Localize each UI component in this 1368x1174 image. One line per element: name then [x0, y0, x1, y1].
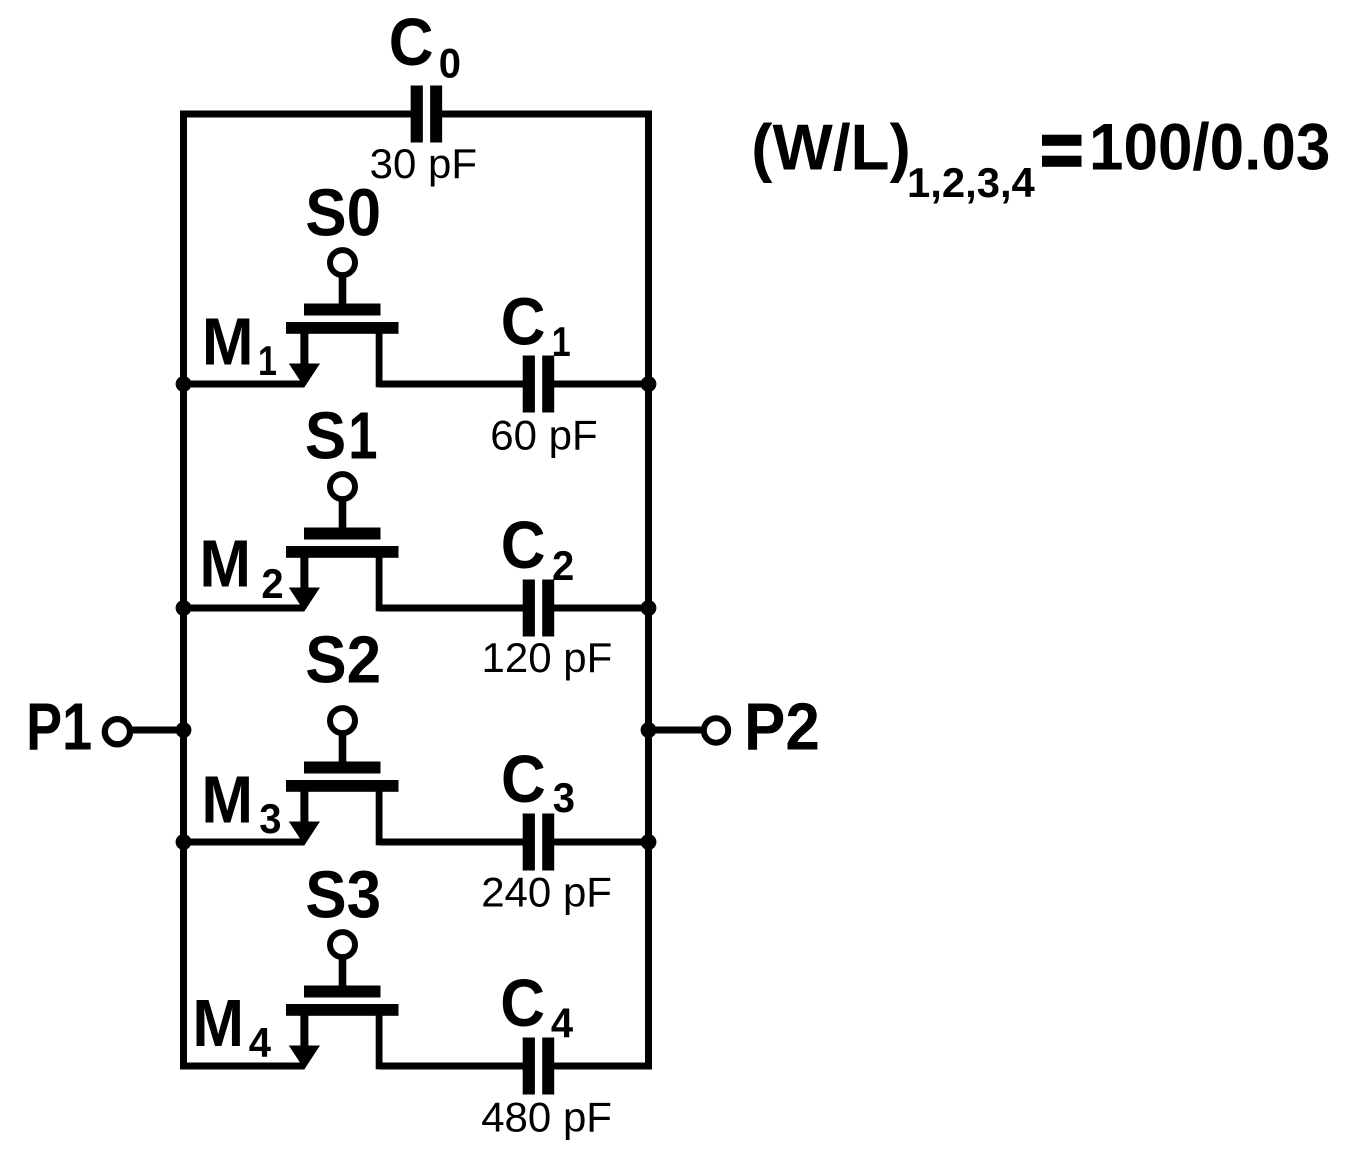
svg-text:M: M — [201, 762, 253, 837]
svg-text:240 pF: 240 pF — [481, 868, 612, 915]
equals sign — [1042, 135, 1082, 146]
wire row1 middle — [379, 381, 524, 388]
node row2 right junction — [641, 600, 657, 616]
svg-text:P2: P2 — [744, 689, 820, 764]
capacitor C3 — [523, 814, 555, 871]
svg-text:M: M — [199, 526, 251, 601]
svg-text:30 pF: 30 pF — [370, 140, 477, 187]
capacitor C2 — [523, 580, 555, 637]
transistor M1 — [286, 250, 399, 387]
svg-text:P1: P1 — [26, 689, 92, 764]
svg-text:100/0.03: 100/0.03 — [1089, 110, 1330, 184]
svg-text:2: 2 — [261, 560, 283, 607]
svg-text:M: M — [202, 304, 254, 379]
wire row4 left — [180, 1063, 305, 1070]
transistor M2 — [286, 474, 399, 611]
wire row3 left — [184, 839, 305, 846]
svg-text:3: 3 — [259, 795, 281, 842]
wire top right segment — [441, 111, 653, 118]
wire row1 left — [184, 381, 305, 388]
capacitor C1 — [523, 356, 555, 413]
svg-text:M: M — [192, 986, 244, 1061]
svg-text:C: C — [501, 742, 546, 817]
svg-text:1,2,3,4: 1,2,3,4 — [907, 159, 1035, 206]
terminal P1 — [105, 719, 130, 744]
node row1 right junction — [641, 376, 657, 392]
node row3 left junction — [176, 834, 192, 850]
terminal P2 — [704, 718, 728, 742]
svg-text:C: C — [501, 508, 546, 583]
transistor M3 — [286, 708, 399, 845]
svg-text:(W/L): (W/L) — [751, 111, 911, 184]
svg-text:1: 1 — [348, 397, 377, 473]
wire right rail — [645, 111, 652, 1070]
svg-text:S2: S2 — [305, 622, 381, 697]
svg-text:60 pF: 60 pF — [490, 411, 597, 458]
wire row4 middle — [379, 1063, 524, 1070]
svg-text:4: 4 — [249, 1019, 272, 1066]
node P2 junction — [641, 722, 657, 738]
svg-text:C: C — [500, 966, 545, 1041]
svg-text:2: 2 — [552, 542, 574, 589]
node row2 left junction — [176, 600, 192, 616]
wire row4 right — [554, 1063, 653, 1070]
wire row2 left — [184, 605, 305, 612]
svg-text:3: 3 — [553, 774, 575, 821]
svg-text:4: 4 — [551, 1000, 574, 1047]
wire left rail — [180, 111, 187, 1070]
svg-text:120 pF: 120 pF — [482, 634, 613, 681]
svg-text:S3: S3 — [305, 857, 381, 932]
svg-text:0: 0 — [439, 40, 461, 87]
capacitor C4 — [523, 1038, 555, 1095]
wire P1 stub — [131, 727, 187, 734]
wire row1 right — [554, 381, 653, 388]
capacitor C0 — [411, 86, 443, 143]
wire row2 middle — [379, 605, 524, 612]
wire row2 right — [554, 605, 653, 612]
svg-text:C: C — [501, 284, 546, 359]
svg-text:S0: S0 — [305, 175, 381, 250]
wire top left segment — [180, 111, 412, 118]
wire row3 middle — [379, 839, 524, 846]
svg-text:1: 1 — [552, 320, 571, 366]
node row1 left junction — [176, 376, 192, 392]
node row3 right junction — [641, 834, 657, 850]
node P1 junction — [176, 722, 192, 738]
transistor M4 — [286, 932, 399, 1069]
svg-text:C: C — [389, 5, 434, 80]
wire row3 right — [554, 839, 653, 846]
wire P2 stub — [645, 727, 702, 734]
svg-text:S: S — [305, 398, 346, 473]
svg-text:480 pF: 480 pF — [481, 1093, 612, 1140]
svg-text:1: 1 — [258, 339, 277, 385]
